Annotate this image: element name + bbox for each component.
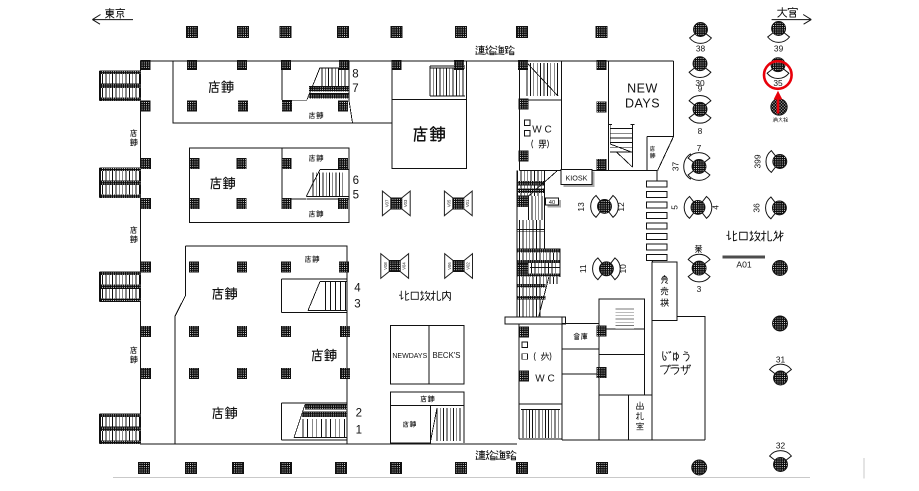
svg-text:NEWDAYS: NEWDAYS: [392, 353, 427, 360]
speaker 35 with red circle: [764, 58, 792, 89]
box: label 40: [548, 200, 562, 208]
svg-text:V05: V05: [447, 199, 452, 207]
wall: bottom concourse wall: [140, 443, 517, 445]
stair: stairs 4/3: [308, 282, 347, 311]
room: mid-right room: [599, 299, 645, 395]
room: NEW DAYS: [609, 61, 674, 171]
shadow: kiosk box: [564, 172, 595, 188]
svg-text:6: 6: [353, 175, 359, 187]
svg-text:10: 10: [618, 264, 628, 274]
svg-text:V01: V01: [465, 199, 470, 207]
svg-text:KIOSK: KIOSK: [566, 173, 588, 182]
stair: central grand stair lower part: [517, 171, 560, 318]
speaker 3 (gyomu): [688, 245, 710, 294]
room: small shop box: [391, 406, 431, 443]
room: storage (kura): [562, 323, 599, 349]
label: shop block3 mid-right: [312, 349, 336, 361]
pillars: row 5: [141, 262, 349, 273]
speaker 31: [770, 354, 792, 385]
stair: stairs 8/7: [282, 68, 353, 123]
svg-text:11: 11: [578, 264, 588, 273]
svg-text:8: 8: [698, 126, 703, 136]
room: slanted shop: [647, 136, 674, 170]
wall: concourse wall south of WC/NEWDAYS: [520, 170, 658, 172]
label: (female): [534, 353, 551, 361]
speaker 5/4: [670, 197, 721, 219]
stair: west stair 1: [100, 71, 141, 101]
svg-text:9: 9: [698, 84, 703, 94]
speaker 30: [689, 57, 711, 88]
speaker 37/7/6: [671, 143, 710, 180]
speaker 11/10: [578, 258, 628, 280]
pillars: free row above top wall: [187, 27, 608, 38]
room: ticket machines (kenbaiki): [652, 262, 677, 320]
svg-text:37: 37: [671, 162, 681, 172]
svg-text:31: 31: [776, 354, 786, 364]
faint guide line bottom right vertical: [863, 458, 865, 479]
room: stair room 8/7 walls: [282, 61, 349, 100]
room: small box below mid room: [599, 395, 652, 440]
speaker 38: [690, 23, 712, 54]
fixture: WC male wall boxes: [525, 120, 531, 126]
svg-text:4: 4: [711, 205, 721, 210]
label: shop (left col 3): [130, 347, 137, 363]
svg-text:35: 35: [773, 78, 783, 88]
gates: ticket gate array: [646, 171, 667, 263]
fire hydrant with red arrow: [771, 91, 788, 122]
svg-text:NEW: NEW: [627, 82, 658, 96]
label: shop small below stairs 8/7: [309, 112, 323, 118]
svg-text:3: 3: [697, 284, 702, 294]
svg-text:399: 399: [753, 154, 763, 168]
room: stair room 4/3 walls: [282, 279, 348, 313]
speaker V05/V01: [444, 191, 472, 216]
svg-text:3: 3: [354, 299, 360, 311]
svg-text:7: 7: [697, 143, 702, 153]
room: View Plaza: [652, 316, 705, 440]
svg-text:13: 13: [576, 202, 586, 212]
stair: west stair 3: [100, 272, 141, 302]
wall: left concourse wall: [139, 61, 141, 444]
pillars: row 3: [141, 151, 606, 170]
svg-text:2: 2: [356, 408, 362, 420]
wall: top concourse wall: [140, 60, 674, 62]
room: NEWDAYS and BECKS box: [391, 326, 464, 385]
svg-text:7: 7: [352, 83, 358, 95]
speaker V06/V02: [445, 254, 473, 279]
room: center shop block: [392, 61, 467, 169]
svg-text:V08: V08: [383, 262, 388, 270]
svg-text:36: 36: [752, 203, 762, 213]
label: shop block3 upper: [213, 288, 237, 300]
stair: small stair in mid room: [616, 309, 635, 329]
room: shop block 3 outline: [175, 246, 347, 444]
speaker 399: [753, 151, 787, 173]
room: ticket office (shussatsu): [651, 395, 653, 440]
svg-text:38: 38: [696, 43, 706, 53]
label: renraku tsuro (top passage): [476, 46, 514, 55]
stair: small stair in NEW DAYS: [608, 125, 634, 168]
svg-text:V04: V04: [402, 262, 407, 270]
label: shop block3 lower: [213, 407, 237, 419]
stair: central grand stair upper part: [517, 171, 557, 318]
kiosk box: [561, 170, 592, 185]
wall: corridor wall: [562, 373, 599, 375]
svg-text:5: 5: [353, 190, 359, 202]
svg-text:DAYS: DAYS: [625, 97, 660, 111]
pillars: free bottom row: [139, 463, 608, 474]
svg-text:W C: W C: [532, 125, 551, 136]
label: shop small above stairs 6/5: [309, 155, 323, 161]
pillars: row 6: [141, 326, 606, 337]
pillars: on top wall: [141, 60, 607, 69]
svg-text:A01: A01: [736, 260, 752, 270]
svg-text:40: 40: [549, 200, 555, 206]
speaker 39: [768, 22, 790, 54]
svg-text:4: 4: [354, 283, 361, 295]
room: stair room 2/1 walls: [282, 403, 348, 440]
svg-text:12: 12: [616, 202, 626, 212]
stair: stairs 2/1: [294, 405, 347, 438]
pillars: row 2: [141, 99, 607, 113]
stair: stairs 6/5: [306, 170, 349, 199]
label: outside north gate: [727, 231, 784, 241]
pillars: row 7: [141, 367, 606, 381]
gate sign A01: [723, 255, 765, 269]
svg-text:V06: V06: [447, 262, 452, 270]
label: shop (left col 2): [130, 226, 137, 242]
svg-text:1: 1: [356, 425, 362, 437]
svg-text:V03: V03: [403, 199, 408, 207]
label: shop block1 main: [209, 81, 233, 93]
label: shop block2 main: [211, 177, 235, 189]
label: to Omiya (right arrow): [772, 8, 812, 25]
stair: stair next to small shop box: [431, 406, 465, 443]
stair: stairs below WC female: [519, 410, 562, 439]
stair: west stair 2: [100, 168, 141, 198]
room: shop block 2: [190, 148, 349, 223]
room: shop strip box: [391, 392, 464, 405]
svg-text:5: 5: [670, 205, 680, 210]
label: shop small below stairs 6/5: [309, 211, 323, 217]
svg-text:V07: V07: [385, 199, 390, 207]
label: to Tokyo (left arrow): [92, 8, 133, 24]
speaker 32: [770, 440, 792, 471]
label: shop center big: [414, 127, 444, 141]
svg-text:W C: W C: [535, 374, 554, 385]
label: inside north gate: [399, 291, 450, 300]
plain circle bottom: [692, 460, 707, 475]
speaker 13/12: [576, 196, 626, 218]
landing: central stair landing: [505, 317, 566, 324]
svg-text:8: 8: [352, 69, 358, 81]
wall: bottom wall right section: [562, 439, 705, 441]
svg-text:BECK'S: BECK'S: [433, 351, 461, 360]
speaker V07/V03: [382, 191, 410, 216]
plain circle right 1: [772, 261, 787, 276]
pillars: row 4: [141, 196, 528, 209]
speaker V08/V04: [381, 254, 409, 279]
fixture: WC female wall boxes: [522, 342, 528, 348]
speaker 36: [752, 197, 787, 219]
plain circle right 2: [773, 316, 788, 331]
speaker 9/8: [689, 84, 711, 136]
label: shop (left col 1): [130, 129, 137, 145]
svg-text:32: 32: [776, 440, 786, 450]
stair: stairs above WC male: [527, 63, 558, 96]
faint guide line bottom: [113, 477, 810, 479]
stair: west stair 4: [100, 414, 141, 444]
room: WC male block: [520, 61, 562, 171]
label: shop small top of block3: [305, 256, 319, 262]
label: (male): [532, 140, 549, 148]
room: WC female block: [519, 317, 562, 440]
svg-text:39: 39: [774, 43, 784, 53]
room: shop block 1: [173, 61, 392, 123]
svg-text:V02: V02: [466, 262, 471, 270]
stair: center-top stairs: [430, 66, 465, 96]
room: stair room 6/5 walls: [282, 148, 306, 199]
label: renraku tsuro (bottom passage): [476, 450, 516, 459]
